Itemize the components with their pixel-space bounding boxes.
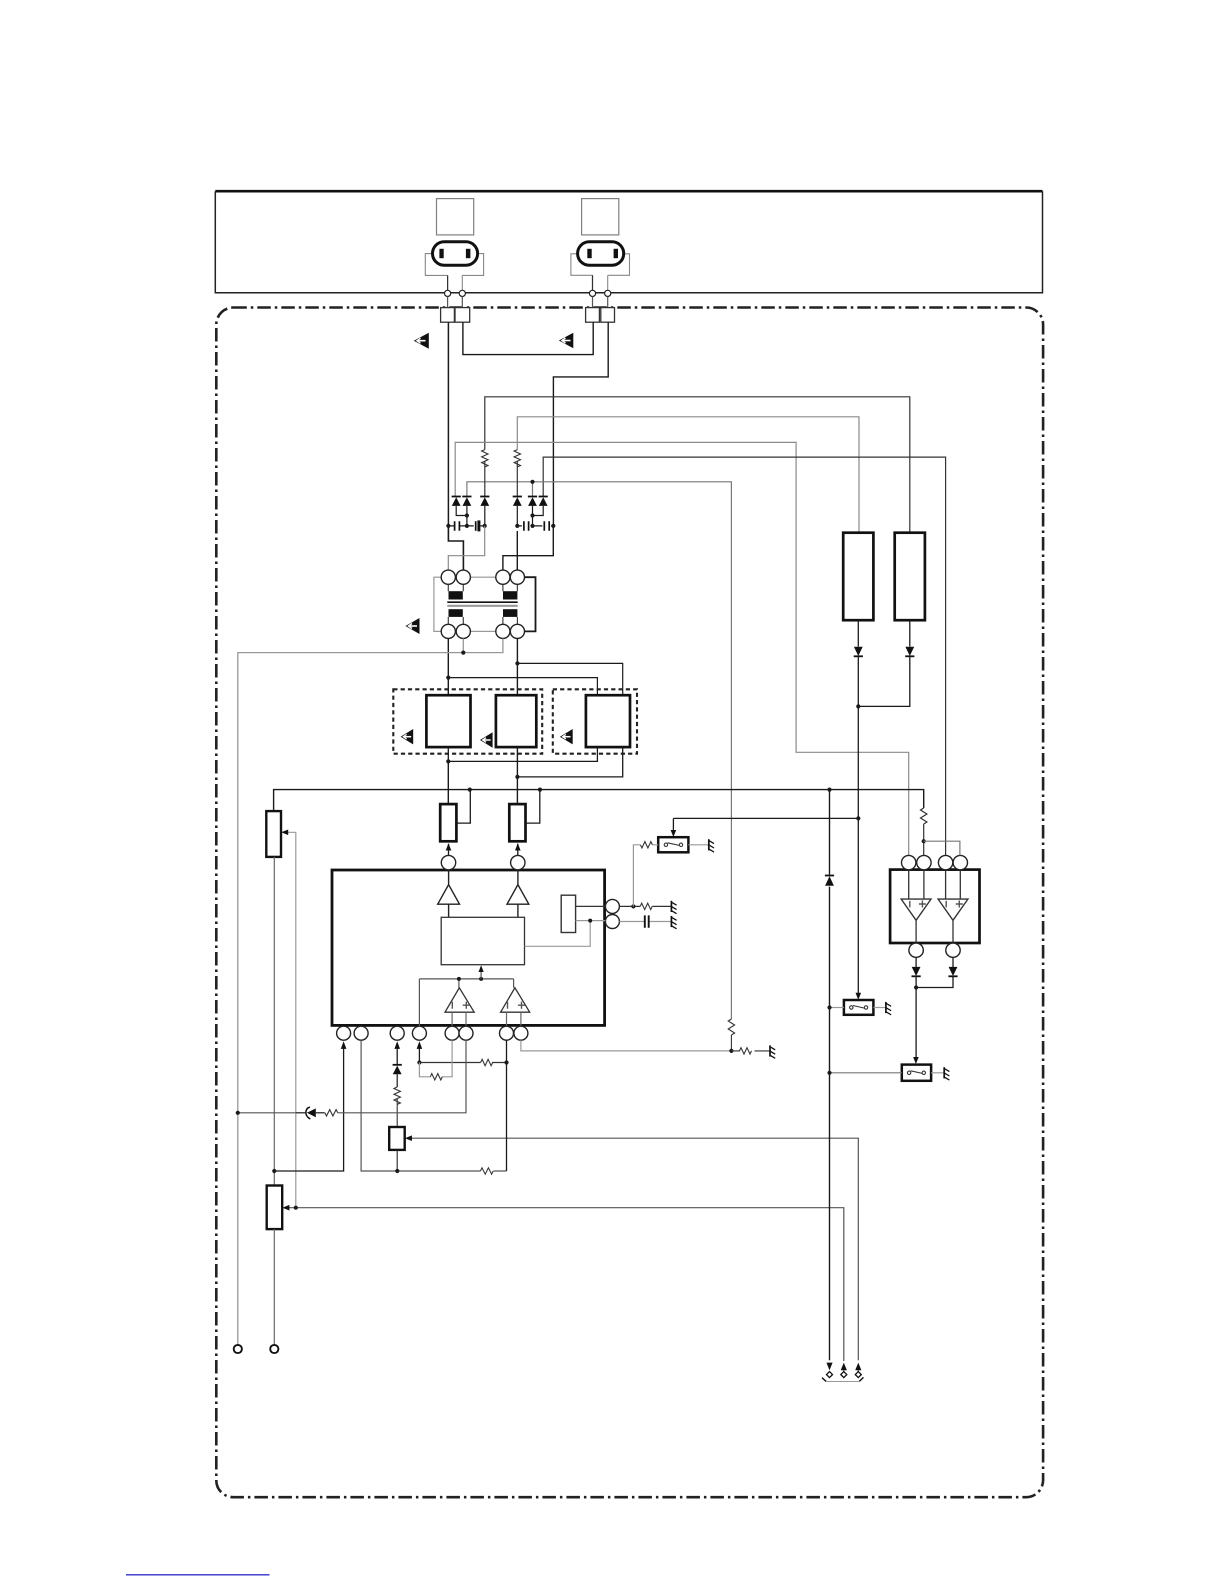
wire node to Q3 left input [448, 678, 597, 696]
ground G1 [671, 901, 676, 914]
driver buffer triangle right [507, 870, 529, 918]
warning triangle W5 [480, 732, 493, 747]
wire cap row to transformer pin3 [503, 526, 553, 570]
wire pin p6 down to zener line [338, 1040, 466, 1113]
lamp L1 socket pins [439, 249, 443, 258]
wire Q3 right out to Q2 line [517, 747, 622, 777]
resistor R12 [394, 1087, 400, 1127]
zener diode ZD1 [296, 1107, 325, 1119]
ballast resistor RB1 [843, 533, 873, 621]
transistor block Q1 [426, 695, 470, 747]
wire lamp L1 right pin to lamp L2 left pin [463, 322, 593, 354]
wire lamp-current sense rail down (diode D7 line) [829, 791, 831, 1361]
capacitor C3 [517, 521, 532, 531]
connector CN1 pin2 arrow up [841, 1363, 847, 1371]
regulator block VR3 [389, 1127, 405, 1150]
switch SW2 [844, 1000, 874, 1015]
transistor block Q2 [496, 695, 536, 747]
U2 top pin circles [902, 855, 916, 869]
wire p4 node down through resistor R9 up to pin p5 [419, 1040, 452, 1077]
wire node to Q3 right input [517, 663, 622, 695]
U1 right side pin circles [605, 899, 619, 913]
connector CN-L2 blocks [586, 308, 600, 323]
wire pin p1 with up arrow, to left rail [274, 1049, 343, 1172]
switch SW3 [902, 1065, 931, 1081]
diode D1 [452, 497, 467, 516]
lamp plug leg emphasis [448, 275, 593, 290]
wire RA bottom with up arrow to pin [448, 844, 450, 856]
wire right pin2 to capacitor C5 and ground [619, 921, 671, 923]
VR3 control arrow wire from comparator line [411, 1138, 859, 1360]
comparator IC U2 box [890, 870, 979, 943]
resistor block RB [509, 804, 525, 841]
dashed module box 1 [393, 689, 542, 753]
wire D5 stub [532, 482, 534, 497]
resistor R3 on supply to U2 pin2 [921, 808, 927, 855]
wire L1 pins to ballast connector [448, 297, 608, 308]
feedback small block inside U1 [561, 895, 575, 932]
dashed module box 2 [553, 689, 637, 753]
wire transformer sec right pin down to Q2 [516, 639, 518, 696]
resistor R10 [480, 1168, 493, 1174]
junction dots capacitor row [446, 524, 450, 528]
supply rail wire (P1 top to R3 chain) [274, 790, 924, 812]
wire cap row to transformer pin2 [448, 526, 463, 570]
comparator input stubs to pins [452, 1012, 521, 1026]
U2 comparator A triangle [901, 899, 931, 920]
terminal TP2 [270, 1345, 278, 1353]
U1 bottom pin circles p1-p8 [337, 1026, 351, 1040]
comparator B inside U1 [501, 988, 530, 1012]
wire node A: R1 top to right ballast R_B2 [485, 397, 910, 533]
wire pin p7 down to bottom node [506, 1040, 508, 1171]
wire control line into SW1 with down arrow [672, 818, 674, 830]
ground G4 [886, 1002, 891, 1015]
transformer T1 secondary windings (black bars) [449, 609, 463, 617]
wire RB side jog to rail [526, 790, 540, 824]
diode D10 [393, 1065, 402, 1087]
wire comparator bus down through pin p4 [418, 979, 420, 1026]
wire pin p4 with up arrow to junction [418, 1049, 420, 1063]
resistor R1 [482, 450, 488, 467]
P1 wiper arrow and wire [287, 832, 296, 1207]
potentiometer P2 [267, 1186, 283, 1230]
lamp L1 pin contacts on box edge [445, 290, 451, 296]
arrow into SW3 top [913, 1057, 919, 1064]
wire Q2 out down to resistor block RB [516, 747, 518, 804]
driver buffer triangle left [438, 870, 460, 918]
resistor R2 [514, 450, 520, 467]
connector CN1 pin diamonds [827, 1372, 862, 1378]
transistor block Q3 [586, 695, 630, 747]
lamp L2 pin contacts on box edge [589, 290, 595, 296]
wire P1 bottom down to P2 [273, 857, 275, 1186]
comparator output bus inside U1 [419, 979, 513, 988]
wire feedback block to right pins [576, 905, 606, 907]
wire transformer sec left pin down to Q1 [447, 639, 449, 696]
ground G5 [944, 1067, 949, 1080]
terminal TP1 [234, 1345, 242, 1353]
lamp L1 plug body outline [425, 254, 483, 291]
diode D4 [513, 497, 522, 526]
wire p4 node right through resistor R8 to p7 line [419, 1062, 506, 1064]
wire pin p8 right to R4 node [521, 1040, 732, 1051]
wire Q1 out / Q3 out join [448, 747, 597, 761]
wire RB bottom with up arrow to pin [517, 844, 519, 856]
diode D8 under U2 outA [912, 957, 921, 1058]
wire pin p2 down and right through resistor R10 to p7 line [361, 1040, 506, 1171]
warning triangle W2 [559, 333, 573, 349]
capacitor C4 [533, 521, 554, 531]
comparator A inside U1 [445, 988, 474, 1012]
potentiometer P1 [266, 811, 281, 857]
diode D5 [528, 497, 537, 526]
lamp L2 socket oval [578, 242, 624, 265]
wire SW2 left to D7 line [830, 1007, 844, 1009]
U2 comparator B triangle [938, 899, 968, 920]
wire node B: R2 top to right ballast R_B1 [517, 417, 859, 533]
warning triangle W6 [560, 729, 573, 744]
diode D3 [480, 497, 489, 526]
wire pin p3 with up arrow [396, 1049, 398, 1065]
P2 wiper arrow and long wire to connector pin2 [288, 1208, 844, 1361]
diode DT1 below RB1 [854, 620, 863, 706]
wire zener line to left rail [238, 1112, 296, 1114]
transformer T1 outer loop [434, 577, 536, 631]
ballast resistor RB2 [895, 533, 925, 621]
resistor R9 [430, 1074, 442, 1080]
IC U1 top pin circles [441, 855, 455, 869]
resistor R6 [640, 842, 652, 848]
wire SW3 right to ground [931, 1072, 944, 1074]
transformer T1 primary windings (black bars) [449, 591, 463, 599]
wire SW1 control from ballast diode node [673, 817, 858, 819]
connector CN1 bracket [822, 1377, 864, 1381]
capacitor C1 [448, 521, 467, 531]
diode D7 [825, 876, 834, 886]
diode D6 [533, 497, 548, 516]
wire cap row to transformer pin1 [448, 526, 484, 570]
lamp L1 bulb square [437, 199, 474, 235]
wire SW1 left through resistor R6 down to pin node [633, 845, 658, 907]
warning triangle W1 [414, 333, 429, 349]
transformer T1 bottom pin circles [441, 624, 455, 638]
arrow into oscillator block bottom [480, 971, 482, 979]
wire SW2 right to ground [873, 1007, 886, 1009]
VR3 bottom to node [396, 1150, 398, 1171]
wire SW1 right to ground [688, 844, 708, 846]
connector CN-L1 blocks [441, 308, 455, 323]
transformer T1 right bracket [525, 577, 536, 631]
warning triangle W4 [401, 729, 414, 744]
transformer T1 winding stubs [448, 584, 517, 624]
warning triangle W3 [406, 618, 420, 634]
wire P2 bottom to terminal TP2 [273, 1229, 275, 1345]
lamp L2 bulb square [582, 199, 619, 235]
diode D9 under U2 outB [916, 957, 958, 987]
wire Q1 node down to resistor block RA [447, 761, 449, 804]
U2 input stubs [909, 870, 961, 900]
wire ballast node down to SW2 with arrow [857, 706, 859, 993]
resistor block RA [440, 804, 456, 841]
footer link line [126, 1574, 270, 1576]
lamp L2 socket pins [587, 249, 591, 258]
diode DT2 below RB2 [858, 620, 914, 706]
wire lamp L1 left pin down [447, 322, 449, 526]
resistor R5 to ground [731, 1048, 770, 1054]
wire R3 node jog to U2 pin4 [924, 841, 960, 855]
resistor R11 [325, 1110, 338, 1116]
wire SW3 left to D7 line [830, 1072, 902, 1074]
lamp L2 plug body outline [571, 254, 630, 291]
ground G2 [671, 916, 676, 929]
lamp L1 socket oval [433, 242, 478, 265]
resistor R8 [481, 1059, 493, 1065]
wire right pin1 to resistor R7 and ground [619, 905, 671, 907]
wire transformer sec return (gray) to left rail [238, 639, 503, 1345]
IC U1 box [332, 870, 605, 1025]
wire RA side jog to rail [456, 790, 470, 824]
capacitor C5 [645, 915, 649, 927]
resistor R7 [640, 903, 652, 909]
ground G6 [770, 1045, 775, 1058]
U2 output stubs [916, 920, 953, 943]
oscillator block inside U1 [441, 917, 524, 964]
transformer T1 top pin circles [441, 570, 455, 584]
wire cap row to transformer pin4 [516, 531, 518, 570]
switch SW1 [658, 837, 688, 852]
top enclosure box (lamp unit) [215, 190, 1042, 193]
capacitor C2 (polarized) [467, 520, 485, 531]
connector CN1 pin1 arrow down [826, 1363, 832, 1371]
U2 bottom pin circles [909, 943, 923, 957]
wire node C: D1 top to comparator U2 pin1 [455, 442, 909, 855]
wire lamp L2 right pin down-left [553, 322, 608, 526]
resistor R4 (vertical on node E line) [728, 1019, 734, 1051]
ground G3 [709, 839, 714, 852]
wire node E: D2/D5 tops to resistor R4 chain [467, 482, 732, 1019]
main dash-dot enclosure border [216, 308, 1043, 1498]
wire node D: D6 top to comparator U2 pin3 [543, 457, 945, 855]
diode D2 [462, 497, 471, 526]
transformer T1 core [447, 601, 517, 603]
connector CN1 pin3 arrow up [855, 1363, 861, 1371]
